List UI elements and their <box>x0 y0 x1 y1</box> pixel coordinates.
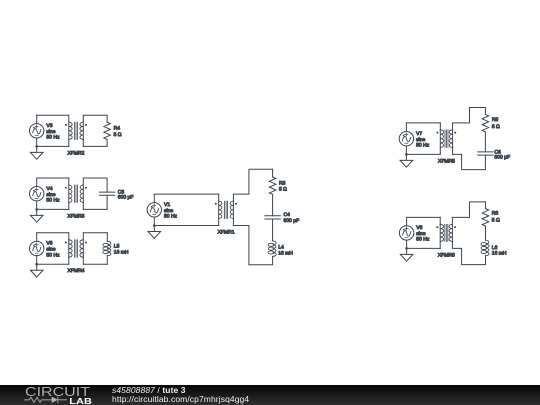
resistor R4 <box>104 122 111 139</box>
wire inductor top lead <box>106 233 108 242</box>
wire bottom left loop <box>37 145 69 147</box>
junction <box>35 263 38 266</box>
svg-text:16 mH: 16 mH <box>278 251 293 257</box>
ground <box>30 209 43 222</box>
svg-text:XFMR2: XFMR2 <box>68 150 85 156</box>
svg-text:R6: R6 <box>492 210 499 216</box>
inductor L4 <box>268 241 276 257</box>
wire secondary to R6 <box>452 202 485 218</box>
resistor R6 <box>482 209 489 227</box>
wire C6 back to secondary <box>453 154 486 169</box>
svg-text:R4: R4 <box>114 126 121 132</box>
voltage source V7 <box>399 123 413 154</box>
svg-text:XFMR6: XFMR6 <box>438 252 455 258</box>
wire bottom left loop V7 <box>406 153 440 155</box>
inductor L5 <box>103 241 111 255</box>
wire top left loop <box>37 177 69 179</box>
junction <box>153 224 156 227</box>
wire bottom right loop <box>83 263 107 265</box>
svg-text:16 mH: 16 mH <box>114 250 129 256</box>
wire inductor bottom lead <box>106 256 108 265</box>
resistor R5 <box>482 114 489 131</box>
wire L4 back to secondary <box>233 226 272 265</box>
svg-text:50 Hz: 50 Hz <box>46 135 60 141</box>
transformer XFMR2 <box>65 115 87 146</box>
voltage source V4 <box>30 178 44 209</box>
svg-text:5 Ω: 5 Ω <box>492 124 500 130</box>
transformer XFMR6 <box>436 217 456 248</box>
junction <box>35 208 38 211</box>
ground <box>30 264 43 277</box>
wire secondary to R5 <box>453 108 486 123</box>
junction <box>405 247 408 250</box>
ground <box>400 248 413 261</box>
wire top left loop <box>37 114 69 116</box>
capacitor C6 <box>478 152 493 155</box>
svg-text:50 Hz: 50 Hz <box>46 198 60 204</box>
svg-text:50 Hz: 50 Hz <box>416 143 430 149</box>
wire resistor bottom lead <box>106 139 108 146</box>
svg-text:R5: R5 <box>492 117 499 123</box>
transformer XFMR4 <box>65 233 87 264</box>
wire bottom left loop <box>37 263 69 265</box>
wire top left loop V6 <box>407 216 441 218</box>
svg-text:600 µF: 600 µF <box>494 155 510 161</box>
transformer XFMR1 <box>215 194 237 225</box>
svg-text:XFMR3: XFMR3 <box>68 213 85 219</box>
inductor L6 <box>481 240 489 256</box>
svg-text:XFMR5: XFMR5 <box>438 158 455 164</box>
wire top right loop <box>83 177 107 179</box>
wire bottom left loop V6 <box>407 247 441 249</box>
footer url line <box>112 395 249 404</box>
svg-text:600 µF: 600 µF <box>284 218 300 224</box>
svg-text:5 Ω: 5 Ω <box>492 218 500 224</box>
svg-text:16 mH: 16 mH <box>492 250 507 256</box>
resistor R3 <box>269 177 276 195</box>
ground <box>148 226 161 239</box>
wire capacitor bottom lead <box>106 195 108 209</box>
svg-text:600 µF: 600 µF <box>118 195 134 201</box>
svg-text:50 Hz: 50 Hz <box>46 252 60 258</box>
wire R5 to C6 <box>484 132 486 152</box>
wire top right loop <box>83 114 107 116</box>
wire secondary to R3 <box>233 169 272 194</box>
wire R3 to C4 <box>272 194 274 215</box>
logo resistor-diode wire <box>24 396 67 402</box>
ground <box>30 146 43 159</box>
voltage source V1 <box>147 194 161 225</box>
voltage source V6 <box>399 217 413 248</box>
wire bottom left loop <box>37 208 69 210</box>
transformer XFMR5 <box>436 123 456 154</box>
svg-text:5 Ω: 5 Ω <box>279 186 287 192</box>
wire top left loop <box>37 232 69 234</box>
junction <box>405 153 408 156</box>
wire bottom right loop <box>83 145 107 147</box>
svg-text:XFMR4: XFMR4 <box>68 268 85 274</box>
wire bottom right loop <box>83 208 107 210</box>
wire top left loop V1 <box>154 193 218 195</box>
svg-text:XFMR1: XFMR1 <box>218 230 235 236</box>
wire bottom left loop V1 <box>154 225 218 227</box>
wire L6 back to secondary <box>452 248 485 264</box>
wire top right loop <box>83 232 107 234</box>
svg-text:50 Hz: 50 Hz <box>416 237 430 243</box>
wire C4 to L4 <box>272 219 274 241</box>
svg-text:5 Ω: 5 Ω <box>114 132 122 138</box>
capacitor C4 <box>265 216 280 219</box>
voltage source V3 <box>30 115 44 146</box>
wire top left loop V7 <box>406 122 440 124</box>
transformer XFMR3 <box>65 178 87 209</box>
footer bar <box>0 385 540 405</box>
junction <box>35 145 38 148</box>
footer title line <box>112 386 186 395</box>
wire capacitor top lead <box>106 178 108 192</box>
capacitor C5 <box>99 192 114 195</box>
wire R6 to L6 <box>485 226 487 240</box>
svg-text:50 Hz: 50 Hz <box>164 214 178 220</box>
ground <box>400 154 413 167</box>
voltage source V5 <box>30 233 44 264</box>
svg-text:L4: L4 <box>278 245 284 251</box>
svg-text:LAB: LAB <box>69 397 92 405</box>
wire resistor top lead <box>106 115 108 122</box>
